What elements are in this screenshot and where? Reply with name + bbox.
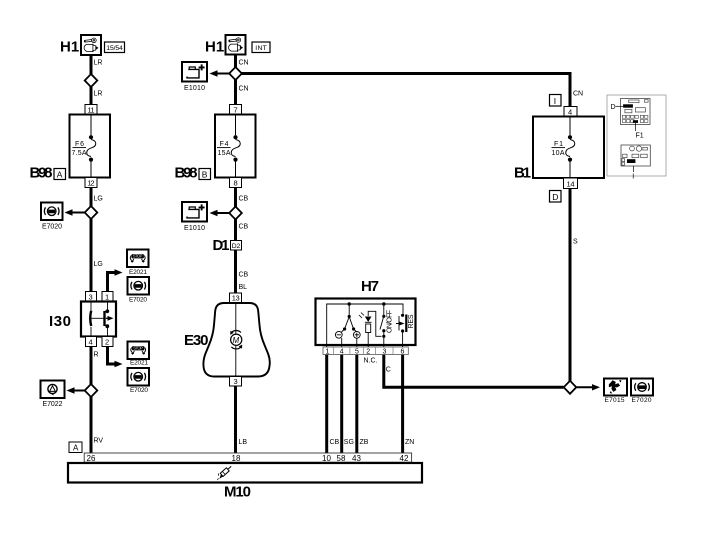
svg-text:RV: RV: [94, 438, 104, 445]
svg-text:CB: CB: [239, 272, 249, 279]
svg-text:LG: LG: [94, 261, 103, 268]
svg-text:E1010: E1010: [184, 85, 205, 92]
svg-text:LR: LR: [94, 91, 103, 98]
svg-text:E7022: E7022: [43, 401, 63, 408]
svg-text:2: 2: [366, 348, 370, 355]
svg-text:N.C.: N.C.: [364, 358, 378, 365]
svg-text:M10: M10: [224, 484, 251, 501]
svg-text:43: 43: [352, 454, 361, 463]
svg-text:13: 13: [232, 294, 240, 303]
svg-text:F1: F1: [636, 133, 644, 140]
svg-text:M: M: [233, 336, 240, 345]
svg-text:8: 8: [234, 178, 238, 187]
svg-text:F6: F6: [75, 141, 84, 148]
svg-text:A: A: [57, 170, 63, 180]
svg-text:58: 58: [337, 454, 346, 463]
svg-text:D: D: [611, 104, 616, 111]
svg-text:B: B: [202, 170, 208, 180]
svg-text:18: 18: [232, 454, 241, 463]
svg-text:LG: LG: [94, 196, 103, 203]
svg-text:CN: CN: [573, 91, 583, 98]
svg-text:BL: BL: [239, 284, 248, 291]
svg-text:15/54: 15/54: [106, 45, 123, 52]
svg-text:7.5A: 7.5A: [72, 150, 87, 157]
svg-text:CB: CB: [239, 196, 249, 203]
svg-text:E1010: E1010: [184, 225, 205, 232]
svg-text:E2021: E2021: [129, 269, 147, 276]
svg-text:11: 11: [88, 105, 95, 114]
svg-text:C: C: [386, 367, 391, 374]
svg-text:ZB: ZB: [360, 439, 369, 446]
svg-text:B98: B98: [30, 165, 53, 182]
svg-text:D2: D2: [232, 243, 241, 250]
svg-text:4: 4: [89, 337, 93, 346]
svg-text:E7020: E7020: [130, 387, 148, 394]
svg-text:I: I: [554, 96, 556, 106]
svg-text:1: 1: [105, 292, 109, 301]
svg-text:10: 10: [322, 454, 331, 463]
svg-text:3: 3: [234, 377, 238, 386]
svg-text:E7015: E7015: [605, 397, 625, 404]
svg-text:E30: E30: [184, 332, 209, 349]
svg-text:ZN: ZN: [405, 439, 414, 446]
svg-text:E2021: E2021: [130, 360, 148, 367]
svg-text:D1: D1: [213, 237, 230, 254]
svg-text:42: 42: [400, 454, 409, 463]
svg-text:7: 7: [234, 105, 238, 114]
svg-text:15A: 15A: [218, 150, 231, 157]
svg-text:INT: INT: [255, 45, 266, 52]
svg-text:6: 6: [401, 348, 405, 355]
svg-text:H7: H7: [361, 278, 379, 295]
svg-text:10A: 10A: [552, 150, 565, 157]
svg-text:CB: CB: [239, 224, 249, 231]
svg-text:2: 2: [105, 337, 109, 346]
svg-text:SG: SG: [344, 439, 354, 446]
svg-text:4: 4: [568, 107, 572, 116]
svg-text:E7020: E7020: [42, 224, 62, 231]
svg-text:LR: LR: [94, 60, 103, 67]
svg-text:14: 14: [567, 179, 575, 188]
svg-text:12: 12: [88, 178, 95, 187]
svg-text:B1: B1: [514, 165, 531, 182]
svg-text:CN: CN: [239, 86, 249, 93]
svg-text:LB: LB: [239, 439, 248, 446]
svg-text:ON/OFF: ON/OFF: [387, 310, 394, 333]
svg-text:3: 3: [89, 292, 93, 301]
svg-text:4: 4: [340, 348, 344, 355]
svg-text:CB: CB: [330, 439, 340, 446]
svg-text:F4: F4: [220, 141, 229, 148]
svg-text:B98: B98: [175, 165, 198, 182]
svg-text:D: D: [552, 192, 558, 202]
svg-text:1: 1: [326, 348, 330, 355]
svg-text:26: 26: [87, 454, 96, 463]
svg-text:H1: H1: [205, 39, 224, 56]
svg-text:E7020: E7020: [129, 297, 147, 304]
svg-text:A: A: [73, 443, 79, 452]
svg-text:RES: RES: [408, 314, 415, 328]
svg-text:H1: H1: [60, 39, 79, 56]
svg-text:3: 3: [383, 348, 387, 355]
svg-text:I30: I30: [49, 313, 71, 330]
svg-text:I: I: [632, 174, 634, 181]
svg-text:E7020: E7020: [632, 397, 652, 404]
svg-text:5: 5: [355, 348, 359, 355]
svg-text:R: R: [94, 352, 99, 359]
svg-text:S: S: [573, 239, 578, 246]
svg-text:F1: F1: [554, 141, 563, 148]
svg-text:CN: CN: [239, 60, 249, 67]
